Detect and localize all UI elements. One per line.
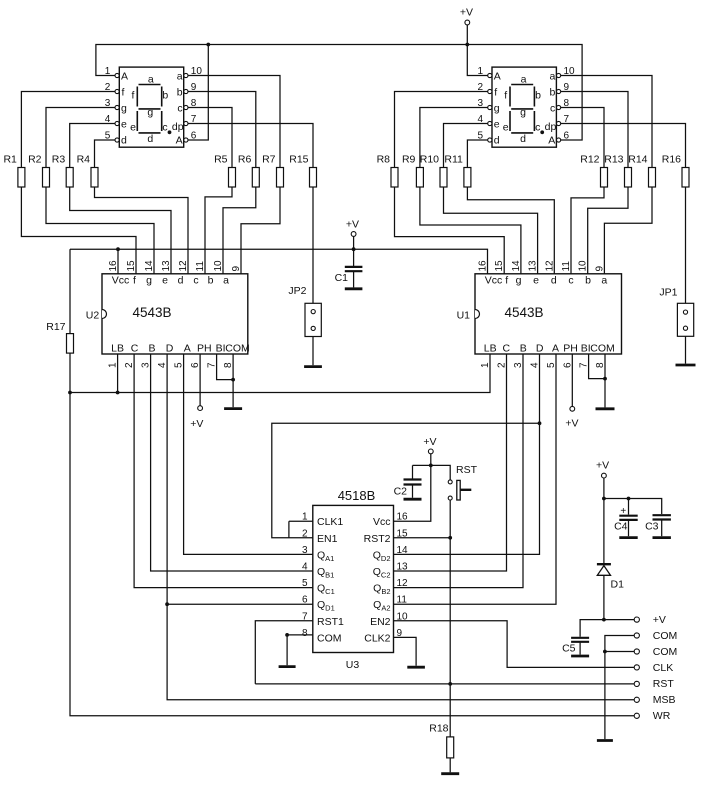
wire left display pin6 riser to +V rail (188, 45, 208, 141)
wire R4 to U2 pin12 (95, 187, 189, 274)
svg-text:a: a (223, 275, 229, 287)
svg-text:D1: D1 (611, 579, 625, 591)
wire R16 to JP1 (685, 187, 687, 303)
ground C4 (619, 536, 637, 539)
svg-text:4: 4 (157, 362, 168, 368)
capacitor C1 (345, 267, 363, 271)
wire R17 bottom to WR terminal (70, 353, 634, 716)
resistor R14 (628, 154, 655, 188)
wire R12 to U1 pin11 (571, 187, 604, 274)
svg-text:2: 2 (477, 82, 483, 93)
svg-text:R8: R8 (377, 154, 391, 166)
svg-text:6: 6 (190, 362, 201, 368)
7-segment display right (477, 66, 575, 147)
node junction D MSB QD1 (165, 602, 169, 606)
ground C5 (571, 655, 589, 658)
wire R14 to U1 pin9 (604, 187, 652, 274)
svg-text:4518B: 4518B (338, 488, 376, 503)
svg-text:R2: R2 (28, 154, 42, 166)
svg-text:LB: LB (111, 343, 124, 355)
wire U3 pin9 CLK2 to ground (394, 637, 417, 665)
ground U2 COM (224, 407, 242, 410)
svg-text:7: 7 (302, 611, 308, 622)
resistor R1 (3, 154, 24, 188)
node junction C4 tap (627, 497, 631, 501)
svg-text:3: 3 (477, 98, 483, 109)
svg-text:COM: COM (653, 646, 678, 658)
svg-text:1: 1 (105, 66, 111, 77)
wire net c right: display pin8 to R12 (561, 108, 604, 168)
svg-text:12: 12 (544, 260, 555, 272)
svg-text:5: 5 (174, 362, 185, 368)
svg-text:Vcc: Vcc (373, 516, 391, 528)
svg-text:b: b (177, 86, 183, 98)
wire U3 pin10 EN2 to CLK terminal (394, 621, 635, 668)
svg-text:7: 7 (191, 114, 197, 125)
svg-text:U2: U2 (86, 309, 100, 321)
svg-text:a: a (177, 70, 183, 82)
wire net d right: display pin5 to R11 (467, 140, 487, 168)
svg-text:CLK1: CLK1 (317, 516, 343, 528)
svg-text:16: 16 (397, 512, 409, 523)
svg-text:g: g (147, 107, 153, 119)
wire C5 bottom lead to ground (579, 643, 581, 655)
wire C2 bottom lead to ground (412, 485, 414, 498)
terminal +V (634, 614, 666, 626)
diode D1 (597, 564, 611, 575)
node junction Vcc rail C1 (352, 247, 356, 251)
power +V at D1 (596, 460, 609, 479)
wire U1 pin4 D to U3 QD2 (394, 354, 540, 554)
ground C1 (345, 287, 363, 290)
node junction U1 BI COM (603, 377, 607, 381)
capacitor C3 (653, 515, 671, 519)
svg-text:U3: U3 (346, 659, 360, 671)
wire R6 to U2 pin10 (223, 187, 256, 274)
svg-text:R14: R14 (628, 154, 647, 166)
svg-text:14: 14 (144, 260, 155, 272)
svg-text:C5: C5 (562, 643, 576, 655)
resistor R16 (662, 154, 689, 188)
svg-text:1: 1 (480, 362, 491, 368)
wire net dp right: display pin7 to R16 (561, 124, 686, 168)
wire QD1 branch to U3 pin6 (167, 603, 313, 605)
svg-text:PH: PH (197, 343, 212, 355)
svg-text:R3: R3 (52, 154, 66, 166)
wire C4 C3 supply rail (604, 499, 662, 515)
wire R5 to U2 pin11 (205, 187, 232, 274)
IC U3 4518B (302, 488, 408, 671)
svg-text:13: 13 (397, 562, 409, 573)
svg-text:4: 4 (530, 362, 541, 368)
node junction D1 +V terminal C5 (602, 618, 606, 622)
svg-text:13: 13 (528, 260, 539, 272)
resistor R17 (46, 321, 73, 353)
svg-text:d: d (121, 134, 127, 146)
svg-text:3: 3 (302, 545, 308, 556)
svg-text:U1: U1 (457, 309, 471, 321)
svg-text:14: 14 (397, 545, 409, 556)
wire U1 pin8 COM to ground (604, 354, 606, 407)
resistor R15 (289, 154, 316, 188)
wire C3 bottom lead to ground (661, 520, 663, 536)
svg-text:6: 6 (564, 131, 570, 142)
pushbutton RST (448, 480, 471, 500)
svg-text:g: g (121, 102, 127, 114)
wire R1 to U2 pin15 (21, 187, 136, 274)
wire U2 pin16 Vcc riser (117, 249, 119, 274)
svg-text:e: e (162, 275, 168, 287)
svg-text:3: 3 (513, 362, 524, 368)
svg-text:11: 11 (561, 261, 572, 272)
svg-text:COM: COM (653, 630, 678, 642)
svg-text:8: 8 (302, 628, 308, 639)
svg-text:C: C (503, 343, 511, 355)
svg-text:a: a (549, 70, 555, 82)
svg-text:d: d (551, 275, 557, 287)
node junction top rail pin6 (206, 43, 210, 47)
svg-text:C1: C1 (335, 272, 349, 284)
wire net f left: display pin2 to R1 (21, 92, 115, 168)
svg-text:5: 5 (477, 131, 483, 142)
node junction LB rail U2 pin1 (116, 391, 120, 395)
svg-text:D: D (536, 343, 544, 355)
svg-text:g: g (494, 102, 500, 114)
wire RST net row to RST terminal (255, 683, 634, 685)
svg-text:a: a (148, 74, 154, 86)
svg-text:6: 6 (562, 362, 573, 368)
svg-text:3: 3 (105, 98, 111, 109)
svg-text:MSB: MSB (653, 694, 676, 706)
svg-text:b: b (535, 90, 541, 102)
svg-text:5: 5 (546, 362, 557, 368)
svg-text:A: A (184, 343, 191, 355)
wire U1 pin6 PH to +V (571, 354, 573, 406)
wire +V symbol through C1 top plate (353, 236, 355, 267)
svg-text:f: f (505, 275, 508, 287)
wire U2 pin4 D to MSB terminal (167, 354, 634, 700)
svg-text:f: f (494, 86, 497, 98)
svg-text:a: a (601, 275, 607, 287)
resistor R7 (262, 154, 283, 188)
wire U1 pin5 A to U3 QA2 (394, 354, 557, 604)
wire COM terminal 2 and ground drop (605, 652, 634, 740)
svg-text:16: 16 (108, 260, 119, 272)
svg-text:f: f (133, 275, 136, 287)
wire R9 to U1 pin14 (420, 187, 521, 274)
svg-text:c: c (162, 121, 167, 133)
svg-text:16: 16 (478, 260, 489, 272)
svg-text:4543B: 4543B (504, 305, 543, 320)
svg-text:B: B (520, 343, 527, 355)
svg-text:RST2: RST2 (364, 533, 391, 545)
svg-text:12: 12 (178, 260, 189, 272)
svg-text:CLK2: CLK2 (364, 632, 390, 644)
resistor R8 (377, 154, 398, 188)
wire U2 pin2 C to U3 QC1 (134, 354, 313, 588)
terminal MSB (634, 694, 675, 706)
svg-text:d: d (178, 275, 184, 287)
svg-text:c: c (177, 102, 182, 114)
svg-text:b: b (585, 275, 591, 287)
wire LB rail U2 pin1 to U1 pin1 (70, 354, 490, 393)
svg-text:R7: R7 (262, 154, 276, 166)
svg-text:R15: R15 (289, 154, 308, 166)
wire U3 pin15 RST2 stub (394, 537, 451, 539)
svg-text:8: 8 (595, 362, 606, 368)
svg-text:13: 13 (161, 260, 172, 272)
svg-text:4: 4 (105, 114, 111, 125)
svg-text:5: 5 (105, 131, 111, 142)
wire +V symbol to D1 cathode (603, 478, 605, 564)
svg-text:1: 1 (302, 512, 308, 523)
node junction RST2 (448, 536, 452, 540)
svg-text:b: b (549, 86, 555, 98)
ground JP1 (676, 364, 696, 367)
power +V at C1 (346, 219, 359, 237)
power +V at U2 PH (190, 406, 203, 430)
wire R10 to U1 pin13 (444, 187, 538, 274)
resistor R3 (52, 154, 73, 188)
svg-text:A: A (494, 70, 501, 82)
wire +V symbol lead above C2 (430, 454, 432, 466)
svg-text:LB: LB (484, 343, 497, 355)
svg-text:7: 7 (564, 114, 570, 125)
svg-text:RST: RST (653, 678, 675, 690)
ground CLK2 (407, 666, 425, 669)
svg-text:dp: dp (172, 121, 184, 133)
node junction top rail +V (465, 43, 469, 47)
wire U2 pin6 PH to +V (199, 354, 201, 406)
wire net a right: display pin10 to R14 (561, 76, 652, 168)
svg-text:9: 9 (564, 82, 570, 93)
svg-text:+V: +V (190, 418, 203, 430)
jumper JP2 (305, 303, 321, 336)
svg-text:11: 11 (397, 595, 408, 606)
svg-text:JP1: JP1 (659, 287, 677, 299)
svg-text:R18: R18 (429, 723, 448, 735)
svg-text:COM: COM (590, 343, 615, 355)
node junction R17 LB rail (68, 391, 72, 395)
svg-text:e: e (494, 118, 500, 130)
svg-text:6: 6 (302, 595, 308, 606)
svg-text:7: 7 (207, 362, 218, 368)
wire R15 to JP2 (312, 187, 314, 303)
svg-text:2: 2 (302, 528, 308, 539)
wire net b left: display pin9 to R6 (188, 92, 256, 168)
resistor R18 (429, 723, 453, 758)
svg-text:R12: R12 (580, 154, 599, 166)
svg-text:RST1: RST1 (317, 616, 344, 628)
svg-text:b: b (208, 275, 214, 287)
svg-text:A: A (176, 134, 183, 146)
op-amp:none IC U2 4543B (86, 260, 250, 368)
wire R2 to U2 pin14 (46, 187, 154, 274)
svg-text:10: 10 (397, 611, 409, 622)
wire JP1 to ground (685, 336, 687, 363)
svg-text:g: g (516, 275, 522, 287)
wire net a left: display pin10 to R7 (188, 76, 280, 168)
svg-text:PH: PH (563, 343, 578, 355)
wire net e right: display pin4 to R10 (444, 124, 488, 168)
resistor R5 (214, 154, 235, 188)
wire +V supply rail Vcc (70, 249, 488, 274)
wire net f right: display pin2 to R8 (395, 92, 488, 168)
ground U1 COM (596, 407, 615, 410)
node junction QD2 EN1 (538, 421, 542, 425)
wire R17 from Vcc rail (69, 249, 71, 333)
svg-text:BI: BI (216, 343, 226, 355)
svg-text:9: 9 (594, 266, 605, 272)
wire COM terminal 1 (605, 636, 634, 652)
svg-text:f: f (504, 90, 507, 102)
node junction RST R18 (448, 682, 452, 686)
capacitor C5 (571, 638, 589, 642)
node junction Vcc rail U2 pin16 (116, 247, 120, 251)
svg-text:g: g (520, 107, 526, 119)
svg-text:R6: R6 (238, 154, 252, 166)
svg-text:CLK: CLK (653, 662, 673, 674)
svg-text:e: e (503, 121, 509, 133)
svg-text:14: 14 (511, 260, 522, 272)
power +V top (460, 7, 473, 25)
svg-text:15: 15 (397, 528, 409, 539)
wire net g left: display pin3 to R2 (46, 108, 115, 168)
svg-text:d: d (494, 134, 500, 146)
terminal WR (634, 710, 671, 722)
wire U2 pin7 BI to pin8 (217, 354, 234, 380)
svg-text:10: 10 (564, 66, 576, 77)
svg-text:+V: +V (423, 436, 436, 448)
node junction COM terminals (603, 650, 607, 654)
wire R18 bottom to ground (449, 758, 451, 772)
svg-text:5: 5 (302, 578, 308, 589)
svg-text:Vcc: Vcc (112, 275, 130, 287)
node junction U2 BI COM (231, 378, 235, 382)
wire D1 anode to +V terminal (603, 575, 605, 619)
svg-text:R16: R16 (662, 154, 681, 166)
resistor R11 (444, 154, 470, 188)
svg-text:4543B: 4543B (132, 305, 171, 320)
wire +V symbol to rail and to right display pin1 (467, 25, 487, 76)
svg-text:R11: R11 (444, 154, 463, 166)
svg-text:COM: COM (225, 343, 250, 355)
svg-text:d: d (147, 133, 153, 145)
svg-text:9: 9 (191, 82, 197, 93)
svg-text:g: g (146, 275, 152, 287)
svg-text:BI: BI (581, 343, 591, 355)
svg-text:c: c (568, 275, 573, 287)
svg-text:R9: R9 (402, 154, 416, 166)
wire R13 to U1 pin10 (588, 187, 628, 274)
svg-text:9: 9 (397, 628, 403, 639)
svg-text:R10: R10 (420, 154, 439, 166)
svg-text:+V: +V (596, 460, 609, 472)
svg-text:15: 15 (494, 260, 505, 272)
wire net b right: display pin9 to R13 (561, 92, 628, 168)
svg-text:12: 12 (397, 578, 409, 589)
svg-text:A: A (548, 134, 555, 146)
svg-text:15: 15 (126, 260, 137, 272)
wire +V node to RST switch and C2 (413, 465, 451, 480)
resistor R6 (238, 154, 259, 188)
wire net e left: display pin4 to R3 (70, 124, 115, 168)
svg-text:c: c (193, 275, 198, 287)
wire +V top rail to display anodes (96, 45, 582, 141)
svg-text:R13: R13 (604, 154, 623, 166)
ground JP2 (304, 365, 322, 368)
svg-text:4: 4 (477, 114, 483, 125)
resistor R10 (420, 154, 447, 188)
terminal COM 1 (634, 630, 677, 642)
svg-text:10: 10 (191, 66, 203, 77)
svg-text:4: 4 (302, 562, 308, 573)
ground C3 (653, 536, 671, 539)
wire U3 pin16 Vcc to +V (394, 465, 431, 521)
wire R8 to U1 pin15 (395, 187, 505, 274)
ground COM terminal (597, 739, 613, 742)
wire U3 pin1 CLK1 bracket (289, 521, 313, 538)
svg-text:C3: C3 (645, 521, 659, 533)
svg-text:7: 7 (579, 362, 590, 368)
ground R18 (441, 772, 459, 775)
svg-text:COM: COM (317, 632, 342, 644)
svg-text:f: f (132, 90, 135, 102)
resistor R4 (77, 154, 98, 188)
svg-text:11: 11 (195, 261, 206, 272)
svg-text:C: C (131, 343, 139, 355)
wire U1 pin7 BI to pin8 (589, 354, 605, 379)
svg-text:Vcc: Vcc (485, 275, 503, 287)
svg-text:a: a (521, 74, 527, 86)
svg-text:R17: R17 (46, 321, 65, 333)
wire R7 to U2 pin9 (241, 187, 280, 274)
wire U3 pin8 COM to ground (287, 635, 313, 665)
jumper JP1 (677, 303, 693, 336)
svg-text:C2: C2 (394, 486, 408, 498)
resistor R9 (402, 154, 423, 188)
wire C4 top lead (628, 499, 630, 515)
wire net g right: display pin3 to R9 (420, 108, 488, 168)
wire net d left: display pin5 to R4 (95, 140, 115, 168)
wire C4 bottom lead to ground (628, 521, 630, 537)
svg-text:2: 2 (105, 82, 111, 93)
node junction U3 COM (285, 633, 289, 637)
wire U2 pin5 A to U3 QA1 (184, 354, 313, 554)
wire U2 pin8 COM to ground (232, 354, 234, 407)
wire RST switch to RST net and R18 (449, 500, 451, 737)
svg-text:R1: R1 (3, 154, 17, 166)
svg-text:e: e (121, 118, 127, 130)
wire C2 top lead (412, 465, 414, 478)
svg-text:c: c (550, 102, 555, 114)
svg-text:EN1: EN1 (317, 533, 338, 545)
svg-text:10: 10 (213, 260, 224, 272)
node junction +V C2 RST (429, 464, 433, 468)
resistor R12 (580, 154, 607, 188)
svg-text:WR: WR (653, 710, 671, 722)
power +V at C2 RST (423, 436, 436, 454)
wire U3 pin7 RST1 to RST net (255, 621, 312, 684)
svg-text:B: B (148, 343, 155, 355)
svg-text:e: e (130, 121, 136, 133)
wire C1 bottom plate to ground (353, 271, 355, 287)
svg-text:+V: +V (653, 614, 666, 626)
svg-text:+V: +V (460, 7, 473, 19)
ground U3 COM (279, 665, 296, 668)
svg-text:EN2: EN2 (370, 616, 391, 628)
svg-text:8: 8 (191, 98, 197, 109)
